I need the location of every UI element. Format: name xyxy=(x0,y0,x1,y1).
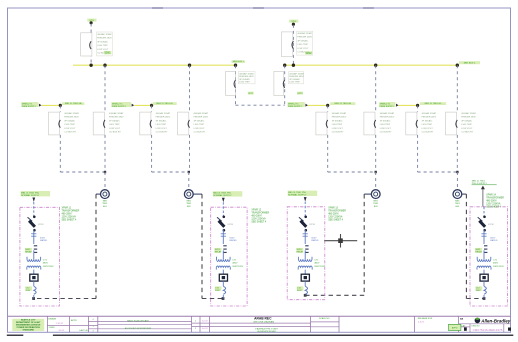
circuit wire PNL1 xyxy=(33,250,35,259)
drop wire unit C xyxy=(151,105,153,112)
tap node dot unit C xyxy=(150,104,153,107)
wire to metering circle G xyxy=(456,172,458,189)
transformer source label unit A xyxy=(21,102,38,107)
svg-text:3P 65KAIC: 3P 65KAIC xyxy=(289,78,300,81)
feeder breaker enclosure unit H xyxy=(446,112,457,135)
CT tick marks PNL3 xyxy=(303,234,308,236)
svg-text:FEEDER 480V: FEEDER 480V xyxy=(239,76,254,78)
svg-text:480-208Y/: 480-208Y/ xyxy=(328,214,339,216)
label MB1 BUS 1 xyxy=(232,60,245,63)
svg-text:CU BUS RT: CU BUS RT xyxy=(194,132,206,134)
circle M1 lead wire xyxy=(96,193,101,195)
svg-text:FEEDER 480V: FEEDER 480V xyxy=(297,37,312,39)
svg-text:LOW VOLT: LOW VOLT xyxy=(156,128,168,130)
drop wire from bus unit F xyxy=(375,65,377,112)
panel feed bottom wire M4 xyxy=(466,298,484,300)
leader arrowhead unit E xyxy=(305,104,308,107)
panel feeder label PNL3 xyxy=(288,191,318,196)
feeder breaker enclosure unit C xyxy=(140,112,151,135)
transformer winding symbol PNL2 xyxy=(217,259,231,261)
panel feed drop wire M3 xyxy=(363,194,365,295)
svg-text:TB01: TB01 xyxy=(186,203,192,205)
wire below breaker unit E xyxy=(327,135,329,172)
wire below breaker unit B xyxy=(104,135,106,172)
meter square PNL4 xyxy=(480,274,488,281)
svg-text:120V 225KVA: 120V 225KVA xyxy=(62,216,77,219)
svg-text:120V 225KVA: 120V 225KVA xyxy=(328,216,343,219)
svg-text:52PM: 52PM xyxy=(488,224,494,226)
circuit wire PNL1 xyxy=(33,281,35,286)
feeder breaker enclosure unit G xyxy=(406,112,417,135)
feeder breaker contact arc unit H xyxy=(456,120,457,128)
svg-text:208Y/120V: 208Y/120V xyxy=(43,266,54,268)
coil CT2 PNL1 xyxy=(34,286,36,294)
panel feed bottom wire M3 xyxy=(305,294,364,296)
svg-text:LAST 40: LAST 40 xyxy=(79,329,88,332)
coil CT2 tag PNL4 xyxy=(476,286,483,290)
svg-text:LSIG TRIP: LSIG TRIP xyxy=(289,82,300,84)
svg-text:4000AF 320AT: 4000AF 320AT xyxy=(239,72,254,75)
feeder breaker contact arc unit C xyxy=(150,120,151,128)
svg-text:MB1 BUS 1: MB1 BUS 1 xyxy=(233,61,245,63)
circuit wire top PNL2 xyxy=(222,202,224,216)
svg-text:FEEDER 480V: FEEDER 480V xyxy=(422,117,437,119)
metering device circle M3 xyxy=(371,190,380,199)
svg-text:4000AF 320AT: 4000AF 320AT xyxy=(380,112,395,115)
transformer source label unit G xyxy=(379,102,395,107)
svg-text:208Y/120V: 208Y/120V xyxy=(314,266,325,268)
circuit wire PNL1 xyxy=(33,230,35,245)
svg-text:NORMAL SUPPLY: NORMAL SUPPLY xyxy=(288,194,307,197)
drop wire unit A xyxy=(59,105,61,112)
wire to metering circle E xyxy=(375,172,377,189)
main breaker 52-M1 device tag xyxy=(104,51,112,54)
svg-text:NORMAL SUPPLY: NORMAL SUPPLY xyxy=(21,194,40,197)
circuit wire top PNL4 xyxy=(483,207,485,217)
metering device circle M2 xyxy=(184,190,193,199)
wire below breaker unit H xyxy=(456,135,458,172)
svg-text:52PM: 52PM xyxy=(38,224,44,226)
meter square PNL3 xyxy=(301,274,309,281)
svg-text:MB1 2L TB01 0G: MB1 2L TB01 0G xyxy=(425,103,442,105)
main breaker 52-M2 device tag xyxy=(305,51,312,54)
bus junction dot tie 2 xyxy=(283,63,286,66)
svg-text:DRAWN: DRAWN xyxy=(48,318,56,321)
svg-text:FEEDER 480V: FEEDER 480V xyxy=(109,117,124,119)
meter square PNL1 xyxy=(30,274,38,281)
feeder breaker enclosure unit F xyxy=(364,112,375,135)
transformer source label unit C xyxy=(111,102,131,107)
svg-text:3P 65KAIC: 3P 65KAIC xyxy=(297,40,308,43)
svg-text:600V: 600V xyxy=(230,237,236,239)
circuit wire top PNL3 xyxy=(304,202,306,217)
main breaker 52-M2 contact arc xyxy=(292,41,293,49)
svg-text:MB1 BUS 2: MB1 BUS 2 xyxy=(464,62,476,64)
title block cell dividers xyxy=(47,322,510,333)
svg-text:52M2: 52M2 xyxy=(306,52,313,55)
svg-text:3P 65KAIC: 3P 65KAIC xyxy=(156,119,167,122)
panelboard boundary box PNL2 xyxy=(211,207,247,306)
circuit name label unit G xyxy=(420,102,446,105)
CT relay tag PNL4 xyxy=(475,248,482,253)
wire below breaker unit C xyxy=(151,135,153,172)
svg-text:4000AF 320AT: 4000AF 320AT xyxy=(289,72,304,75)
svg-text:RATED: RATED xyxy=(40,239,48,242)
feeder tap wire unit C xyxy=(134,104,151,106)
svg-text:208Y/120V: 208Y/120V xyxy=(493,266,504,268)
circuit wire PNL2 xyxy=(222,270,224,275)
svg-text:MBS1 PLAN UPDATE: MBS1 PLAN UPDATE xyxy=(127,320,149,323)
feed 1 wire (dashed drop to bus) xyxy=(90,24,92,66)
coil CT2 PNL3 xyxy=(305,286,307,294)
svg-text:FREE SUPPLY: FREE SUPPLY xyxy=(380,106,395,108)
svg-text:4000AF 320AT: 4000AF 320AT xyxy=(461,112,476,115)
label MB1 BUS 2 xyxy=(459,61,480,64)
feeder breaker enclosure unit D xyxy=(178,112,189,135)
bus junction dot feed1 xyxy=(89,63,92,66)
tap node dot unit A xyxy=(59,104,62,107)
wire below breaker unit F xyxy=(375,135,377,172)
feed 1 node dot xyxy=(90,21,93,24)
wire below breaker unit A xyxy=(59,135,61,172)
svg-text:APPD: APPD xyxy=(452,327,458,330)
svg-text:LSIG TRIP: LSIG TRIP xyxy=(297,44,308,46)
svg-text:4000AF 320AT: 4000AF 320AT xyxy=(97,33,112,36)
svg-text:TRANSFORMER: TRANSFORMER xyxy=(328,210,346,213)
metering device circle M1 xyxy=(101,190,110,199)
current transformer bars PNL1 xyxy=(34,246,37,253)
feeder down arrow PNL2 xyxy=(222,198,225,203)
feeder breaker contact arc unit A xyxy=(59,120,60,128)
circle M4 lead wire xyxy=(462,193,467,195)
svg-text:CU BUS RT: CU BUS RT xyxy=(461,132,473,134)
feeder breaker enclosure unit B xyxy=(93,112,104,135)
meter square PNL2 xyxy=(219,274,227,281)
svg-text:480V: 480V xyxy=(314,263,320,265)
tie breaker 52-T2 rating notes xyxy=(289,72,304,84)
coil CT2 tag PNL3 xyxy=(297,286,304,290)
svg-text:1 30-92: 1 30-92 xyxy=(56,323,64,325)
circuit name label unit A xyxy=(62,102,84,105)
svg-text:CU BUS RT: CU BUS RT xyxy=(332,132,344,134)
leader arrowhead unit A xyxy=(39,104,42,107)
coil CT2 tag PNL1 xyxy=(25,286,32,290)
svg-text:CU BUS RT: CU BUS RT xyxy=(64,132,76,134)
panel feed junction dot M4 xyxy=(483,297,486,300)
panelboard boundary box PNL1 xyxy=(20,207,60,306)
pair link wire G xyxy=(418,171,458,173)
svg-text:1: 1 xyxy=(92,326,93,328)
svg-text:APPR: APPR xyxy=(71,319,77,322)
svg-text:LSIG TRIP: LSIG TRIP xyxy=(461,124,472,126)
circuit wire PNL3 xyxy=(304,250,306,259)
svg-text:RELAY: RELAY xyxy=(25,251,32,254)
main breaker 52-M1 contact arc xyxy=(90,41,91,49)
drop wire from bus unit H xyxy=(456,65,458,112)
svg-text:FEEDER 480V: FEEDER 480V xyxy=(156,117,171,119)
feeder tap wire unit A xyxy=(42,104,61,106)
drawout breaker PNL4 xyxy=(483,216,486,219)
svg-text:52M1: 52M1 xyxy=(105,52,112,55)
circuit wire bottom PNL4 xyxy=(483,295,485,299)
coil CT2 tag PNL2 xyxy=(215,286,222,290)
svg-text:LSIG TRIP: LSIG TRIP xyxy=(64,124,75,126)
svg-text:UTIL: UTIL xyxy=(291,21,297,23)
wire below breaker unit D xyxy=(189,135,191,172)
svg-text:XFMR 14: XFMR 14 xyxy=(486,194,496,196)
svg-text:FREE SUPPLY: FREE SUPPLY xyxy=(22,106,37,108)
transformer source label unit E xyxy=(288,102,305,107)
svg-text:600V: 600V xyxy=(40,237,46,239)
current transformer bars PNL2 xyxy=(223,246,226,253)
wire to metering circle C xyxy=(188,172,190,189)
svg-text:LSIG TRIP: LSIG TRIP xyxy=(97,45,108,47)
svg-text:LSIG TRIP: LSIG TRIP xyxy=(422,124,433,126)
svg-text:LOW VOLT: LOW VOLT xyxy=(64,128,76,130)
circuit wire PNL3 xyxy=(304,281,306,286)
svg-text:480-208Y/: 480-208Y/ xyxy=(62,214,73,216)
panel feed bottom wire M1 xyxy=(34,298,96,300)
feeder tap wire unit G xyxy=(399,104,418,106)
utility feed 1 source label xyxy=(87,19,96,22)
svg-text:3: 3 xyxy=(92,330,93,332)
svg-text:SEE SHEET 4: SEE SHEET 4 xyxy=(328,220,343,222)
drop wire from bus unit D xyxy=(189,65,191,112)
bottom trim marks xyxy=(7,334,514,336)
feeder breaker contact arc unit D xyxy=(188,120,189,128)
svg-text:4: 4 xyxy=(92,319,93,321)
CT relay tag PNL3 xyxy=(296,248,303,253)
svg-text:FEEDER 480V: FEEDER 480V xyxy=(461,117,476,119)
svg-text:CU BUS RT: CU BUS RT xyxy=(156,132,168,134)
svg-text:MB1 2L TB01 0C: MB1 2L TB01 0C xyxy=(156,103,173,105)
svg-text:52T2: 52T2 xyxy=(298,93,304,95)
svg-text:TB01: TB01 xyxy=(373,203,379,205)
svg-text:LOW VOLT: LOW VOLT xyxy=(380,128,392,130)
feed 2 node dot xyxy=(292,23,295,26)
svg-text:4000AF 320AT: 4000AF 320AT xyxy=(64,112,79,115)
svg-text:208Y/120V: 208Y/120V xyxy=(232,266,243,268)
tie breaker 52-T2 device tag xyxy=(297,92,303,95)
circuit name label unit C xyxy=(153,102,177,105)
svg-text:4-6-92: 4-6-92 xyxy=(418,322,425,324)
svg-text:LSIG TRIP: LSIG TRIP xyxy=(380,124,391,126)
feeder down arrow PNL1 xyxy=(32,198,35,203)
svg-text:RATED: RATED xyxy=(311,239,319,242)
svg-text:CMK76216-ME8-4375: CMK76216-ME8-4375 xyxy=(473,328,503,332)
svg-text:RELAY: RELAY xyxy=(215,251,222,254)
svg-text:TRANSFORMER: TRANSFORMER xyxy=(251,212,269,215)
tap node dot unit G xyxy=(416,104,419,107)
svg-text:LOW VOLT: LOW VOLT xyxy=(461,128,473,130)
svg-text:3P 65KAIC: 3P 65KAIC xyxy=(239,78,250,81)
svg-text:4000AF 320AT: 4000AF 320AT xyxy=(194,112,209,115)
drop wire unit G xyxy=(417,105,419,112)
circuit wire bottom PNL2 xyxy=(222,295,224,299)
svg-text:XFMR 13: XFMR 13 xyxy=(328,208,338,210)
feeder leader arrow PNL4 xyxy=(481,186,485,190)
circle M3 lead wire xyxy=(364,193,371,195)
svg-text:CHKD: CHKD xyxy=(49,327,55,329)
feeder breaker contact arc unit E xyxy=(326,120,327,128)
svg-text:FREE SUPPLY: FREE SUPPLY xyxy=(288,106,303,108)
svg-text:CU BUS RT: CU BUS RT xyxy=(109,132,121,134)
main breaker 52-M1 enclosure xyxy=(81,33,92,56)
bus junction dot tap H xyxy=(456,63,459,66)
tie bus link wire xyxy=(236,104,285,106)
tie breaker 52-T1 enclosure xyxy=(226,71,236,95)
svg-text:FREE SUPPLY: FREE SUPPLY xyxy=(112,106,127,108)
circuit wire top PNL1 xyxy=(33,202,35,217)
svg-text:TRANSFORMER: TRANSFORMER xyxy=(486,196,504,199)
pair link wire A xyxy=(60,171,105,173)
svg-text:MB1 2L TB01 0A: MB1 2L TB01 0A xyxy=(65,102,82,105)
svg-text:3P 65KAIC: 3P 65KAIC xyxy=(64,119,75,122)
svg-text:RATED: RATED xyxy=(490,239,498,242)
bus junction dot tie 1 xyxy=(234,63,237,66)
svg-text:LOW VOLT: LOW VOLT xyxy=(332,128,344,130)
feeder breaker contact arc unit B xyxy=(104,120,105,128)
panel feed junction dot M1 xyxy=(32,297,35,300)
CT tick marks PNL4 xyxy=(481,234,486,236)
drawout breaker PNL2 xyxy=(223,216,226,219)
circuit wire PNL4 xyxy=(483,281,485,286)
svg-text:MB1 2L TB01 0E: MB1 2L TB01 0E xyxy=(335,103,352,105)
coil CT2 PNL4 xyxy=(484,286,486,294)
tie breaker 52-T1 drop wire xyxy=(235,65,237,105)
svg-text:RELEASE FOR: RELEASE FOR xyxy=(418,317,433,320)
drawout breaker PNL1 xyxy=(33,216,36,219)
circuit wire PNL4 xyxy=(483,270,485,275)
panelboard boundary box PNL3 xyxy=(287,207,325,300)
bus junction dot tap D xyxy=(188,63,191,66)
pair junction dot C xyxy=(188,171,190,173)
svg-text:LOW VOLT: LOW VOLT xyxy=(422,128,434,130)
svg-text:XFMR 11: XFMR 11 xyxy=(62,208,72,210)
bus MB1 BUS 1 xyxy=(73,64,236,66)
svg-text:FEEDER 480V: FEEDER 480V xyxy=(64,117,79,119)
svg-text:52T1: 52T1 xyxy=(248,93,254,95)
svg-text:LSIG TRIP: LSIG TRIP xyxy=(194,124,205,126)
coil CT2 PNL2 xyxy=(223,286,225,294)
circuit wire PNL4 xyxy=(483,250,485,259)
tie breaker 52-T1 contact arc xyxy=(234,80,235,88)
svg-text:FEEDER 480V: FEEDER 480V xyxy=(380,117,395,119)
svg-text:4000AF 320AT: 4000AF 320AT xyxy=(297,32,312,35)
svg-text:FEEDER 480V: FEEDER 480V xyxy=(332,117,347,119)
svg-text:FEEDER 480V: FEEDER 480V xyxy=(97,38,112,40)
pair link wire C xyxy=(152,171,189,173)
svg-text:LOW VOLT: LOW VOLT xyxy=(194,128,206,130)
panel feed drop wire M4 xyxy=(465,194,467,298)
panel feed drop wire M2 xyxy=(201,194,203,298)
CT relay tag PNL1 xyxy=(25,248,32,253)
CT tick marks PNL1 xyxy=(31,234,36,236)
svg-text:LSIG TRIP: LSIG TRIP xyxy=(156,124,167,126)
svg-text:480V: 480V xyxy=(43,263,49,265)
panelboard boundary box PNL4 xyxy=(470,207,508,306)
svg-text:3P 65KAIC: 3P 65KAIC xyxy=(109,119,120,122)
svg-text:Allen-Bradley: Allen-Bradley xyxy=(480,319,511,324)
svg-text:AS ISSUED FOR REVIEW: AS ISSUED FOR REVIEW xyxy=(125,327,152,330)
utility feed 2 source label xyxy=(289,20,298,23)
svg-text:TB01: TB01 xyxy=(102,203,108,205)
company stamp text xyxy=(12,319,44,331)
wire to metering circle A xyxy=(104,172,106,189)
svg-text:RELAY: RELAY xyxy=(475,251,482,254)
svg-text:480V: 480V xyxy=(493,263,499,265)
panel feeder label PNL2 xyxy=(213,191,243,196)
tie breaker 52-T2 riser wire xyxy=(284,65,286,105)
panel feeder label PNL1 xyxy=(21,191,50,196)
panel feed junction dot M2 xyxy=(222,297,225,300)
svg-text:RELAY: RELAY xyxy=(297,251,304,254)
svg-text:120V 225KVA: 120V 225KVA xyxy=(251,218,266,221)
svg-text:4000AF 320AT: 4000AF 320AT xyxy=(156,112,171,115)
pair junction dot A xyxy=(104,171,106,173)
tie breaker 52-T1 device tag xyxy=(248,92,254,95)
main breaker 52-M1 rating notes xyxy=(96,32,112,56)
metering device circle M4 xyxy=(453,190,462,199)
tie breaker 52-T2 contact arc xyxy=(283,80,284,88)
feeder breaker enclosure unit A xyxy=(49,112,60,135)
CT relay tag PNL2 xyxy=(214,248,221,253)
panel feed bottom wire M2 xyxy=(202,298,223,300)
circuit wire PNL4 xyxy=(483,230,485,245)
svg-text:480-208Y/: 480-208Y/ xyxy=(486,200,497,202)
svg-text:3P 65KAIC: 3P 65KAIC xyxy=(194,119,205,122)
svg-text:600V: 600V xyxy=(311,237,317,239)
feeder breaker contact arc unit F xyxy=(374,120,375,128)
svg-text:TB01: TB01 xyxy=(455,203,461,205)
svg-text:SCALE NO: SCALE NO xyxy=(319,317,330,320)
svg-text:XFMR 12: XFMR 12 xyxy=(251,210,261,212)
svg-text:9 AVENUE PHL 9 UNIT: 9 AVENUE PHL 9 UNIT xyxy=(255,327,279,330)
circuit wire PNL3 xyxy=(304,270,306,275)
svg-text:600V: 600V xyxy=(297,290,302,292)
svg-text:LSIG TRIP: LSIG TRIP xyxy=(109,124,120,126)
circuit wire bottom PNL3 xyxy=(304,294,306,296)
drop wire unit E xyxy=(327,105,329,112)
approval stamp box xyxy=(449,324,461,330)
svg-text:FEEDER 480V: FEEDER 480V xyxy=(194,117,209,119)
svg-text:4000AF 320AT: 4000AF 320AT xyxy=(422,112,437,115)
pair junction dot E xyxy=(375,171,377,173)
svg-text:TRANSFORMER: TRANSFORMER xyxy=(62,210,80,213)
circuit wire PNL1 xyxy=(33,270,35,275)
svg-text:FEEDER 480V: FEEDER 480V xyxy=(289,76,304,78)
main breaker 52-M2 enclosure xyxy=(281,32,292,57)
wire below breaker unit G xyxy=(417,135,419,172)
svg-text:CU BUS RT: CU BUS RT xyxy=(422,132,434,134)
svg-text:600V: 600V xyxy=(26,290,31,292)
circuit name label unit E xyxy=(330,102,355,105)
svg-text:4000AF 320AT: 4000AF 320AT xyxy=(109,112,124,115)
svg-text:600V: 600V xyxy=(476,290,481,292)
svg-text:3P 65KAIC: 3P 65KAIC xyxy=(332,119,343,122)
bus junction dot tap B xyxy=(103,63,106,66)
transformer winding symbol PNL3 xyxy=(298,259,312,261)
svg-text:3P 65KAIC: 3P 65KAIC xyxy=(461,119,472,122)
svg-text:LSIG TRIP: LSIG TRIP xyxy=(239,82,250,84)
feeder tap wire unit E xyxy=(308,104,328,106)
svg-text:480V: 480V xyxy=(232,263,238,265)
svg-text:3P 65KAIC: 3P 65KAIC xyxy=(380,119,391,122)
svg-text:SUBSTATION MB1: SUBSTATION MB1 xyxy=(257,330,277,333)
bus MB1 BUS 2 xyxy=(285,64,458,66)
svg-text:LOW VOLT: LOW VOLT xyxy=(97,49,109,51)
svg-text:LSIG TRIP: LSIG TRIP xyxy=(332,124,343,126)
